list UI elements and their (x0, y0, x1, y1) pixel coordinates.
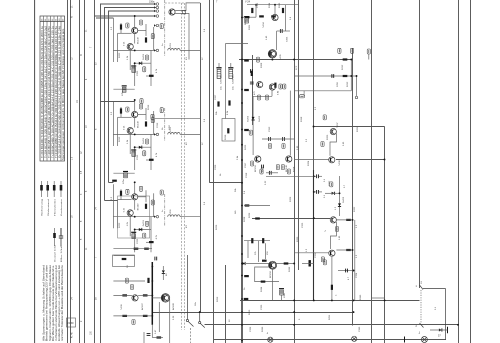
dark resistor on y218 wire (255, 217, 260, 219)
cap C305 (280, 29, 282, 33)
label box (323, 260, 326, 265)
label box (132, 320, 135, 325)
wire tr210 base (152, 297, 161, 299)
vertical x252 upper (252, 55, 254, 125)
svg-text:C216: C216 (157, 122, 159, 128)
svg-text:R330: R330 (297, 236, 299, 242)
vertical x352.5 (352, 48, 354, 326)
wire q2 out (336, 249, 352, 251)
svg-text:C207: C207 (215, 94, 217, 100)
wire y182.7 (210, 182, 243, 184)
vertical x371.6 (371, 0, 373, 343)
transistor Q208 (330, 129, 336, 135)
svg-text:Gr202: Gr202 (258, 115, 261, 122)
input wire 3 (108, 10, 156, 12)
input wire 2 (104, 7, 156, 9)
bus wire E (94, 0, 96, 343)
svg-text:C313: C313 (269, 126, 271, 132)
labels strip4 (120, 265, 175, 334)
resistor R208 (217, 101, 219, 106)
S-wire (331, 222, 337, 249)
dark resistor (346, 219, 351, 221)
svg-text:Drossel 1/4w: Drossel 1/4w (54, 244, 57, 262)
junctions (339, 192, 341, 194)
svg-text:C310: C310 (304, 90, 306, 96)
long vertical x209.5 (209, 0, 211, 183)
svg-text:R244: R244 (261, 286, 263, 292)
svg-text:R249: R249 (262, 326, 264, 332)
supply bus x242 (241, 0, 243, 343)
svg-text:Tr204: Tr204 (262, 22, 265, 28)
legend: symbol 3 (53, 181, 56, 197)
wire y159.2 (336, 159, 385, 161)
svg-text:R321: R321 (357, 126, 359, 132)
bus wire F (100, 4, 102, 343)
wire Q209 base (295, 159, 329, 161)
stem 3 (368, 54, 370, 60)
cap C213 (332, 74, 334, 78)
legend: symbol 4 (60, 181, 63, 197)
junction dots (313, 175, 315, 177)
label below capB (282, 144, 285, 149)
vertical wire G (104, 8, 106, 201)
diode horizontal (332, 192, 335, 195)
dash-dot screen 2 (164, 108, 166, 141)
label box (249, 130, 252, 135)
wire y172.8 (266, 172, 278, 174)
transistor Tr210 (162, 295, 168, 301)
ecap labels (221, 74, 235, 84)
wire y76 (294, 75, 356, 77)
svg-text:R304: R304 (269, 2, 271, 8)
switch contact S1 (186, 255, 193, 343)
wire ecap stem (281, 295, 283, 300)
connector box on Q201 wire (183, 10, 186, 14)
psu diode (439, 328, 442, 331)
svg-text:C340: C340 (359, 326, 361, 332)
wire H corner (109, 182, 114, 184)
svg-text:R332: R332 (354, 206, 356, 212)
svg-text:Tr209: Tr209 (120, 304, 123, 310)
dash-dot screen 3 (164, 194, 166, 226)
label box (300, 95, 305, 98)
svg-text:R223: R223 (119, 222, 121, 228)
label box (321, 257, 324, 262)
svg-text:Tr 201 BC149C Tr 202 BC149C: Tr 201 BC149C Tr 202 BC149C Tr 203 BC149… (41, 25, 44, 158)
label box pair (125, 278, 128, 283)
label box below (335, 227, 338, 232)
svg-text:C225: C225 (137, 238, 139, 244)
transistor Q207 (269, 84, 275, 90)
junction (271, 59, 273, 61)
trimmer box (222, 119, 235, 142)
svg-text:2200: 2200 (337, 81, 339, 87)
diode dark (252, 117, 255, 120)
transistor Q output (270, 262, 276, 268)
svg-text:100u: 100u (284, 292, 286, 298)
wire y139 (262, 138, 294, 140)
label box (265, 95, 268, 100)
ecap dark (244, 17, 249, 23)
svg-text:R229: R229 (216, 224, 218, 230)
diode vertical (338, 203, 341, 206)
vertical stubs (247, 241, 249, 258)
switch contact S2 (199, 312, 205, 328)
vertical x224.3 (225, 43, 227, 118)
lamp symbol 2 (352, 336, 357, 341)
wire y206 with R (244, 205, 270, 207)
svg-text:R203: R203 (119, 52, 121, 58)
label box C312 (323, 115, 326, 120)
table header rule (40, 21, 65, 23)
ecap C208 (228, 68, 233, 79)
input wire 4 (94, 15, 156, 17)
labels (261, 271, 286, 334)
svg-text:Tr 208 BC148B Tr 209 AC187K: Tr 208 BC148B Tr 209 AC187K Gr 208 BA114… (51, 25, 54, 158)
connector contact 5 (154, 24, 159, 27)
junctions (350, 59, 352, 61)
notes paragraph rotated (43, 264, 65, 341)
cap stems (314, 175, 316, 177)
diode on bus (242, 262, 245, 265)
svg-text:Tr: Tr (323, 258, 326, 260)
svg-text:R216: R216 (148, 104, 150, 110)
screen dashed pair left (180, 3, 182, 330)
Q201 collector wire (175, 3, 200, 11)
svg-text:C209: C209 (215, 164, 217, 170)
wire y281 (113, 280, 145, 282)
rail top cap (155, 257, 157, 261)
svg-text:R256: R256 (217, 296, 219, 302)
cap right B (317, 190, 319, 194)
resistor hatched low (251, 71, 253, 76)
vertical x356 (356, 76, 358, 96)
label box (287, 169, 290, 174)
vertical x470 (470, 0, 472, 343)
svg-text:Spannungen gemessen mit Roehre: Spannungen gemessen mit Roehrenvoltm. 10… (62, 28, 65, 160)
wire x285 (285, 5, 287, 31)
label box y116 (151, 114, 154, 119)
dark R row2 left (122, 315, 127, 317)
table column line 3 (50, 16, 52, 161)
legend: fuse symbol 1 (40, 181, 43, 197)
wire q right (277, 263, 295, 265)
input wire 5 (96, 17, 113, 19)
junctions (331, 299, 333, 301)
labels (342, 196, 358, 258)
wire Q204 (274, 5, 276, 15)
svg-text:C329: C329 (315, 252, 317, 258)
label box on wire 3 (367, 49, 370, 54)
svg-text:R326: R326 (290, 196, 292, 202)
screen dashed top (165, 2, 185, 4)
svg-text:R238: R238 (244, 216, 246, 222)
wire Q204b stem (271, 91, 273, 97)
junction dot (255, 4, 257, 6)
dark R (262, 238, 264, 243)
wire y96 (253, 95, 272, 97)
connector contact 3 (154, 10, 159, 13)
parts table frame (40, 16, 65, 161)
svg-text:C334: C334 (356, 272, 358, 278)
table column line 6 (60, 16, 62, 161)
svg-text:R318: R318 (301, 116, 303, 122)
open circle (355, 96, 358, 99)
labels (337, 64, 349, 87)
svg-text:C336: C336 (250, 326, 252, 332)
vertical x256 (255, 5, 257, 18)
svg-text:R324: R324 (308, 160, 310, 166)
vertical x384.6 (384, 126, 386, 343)
dark resistor above (262, 260, 267, 262)
svg-text:R301: R301 (249, 24, 251, 30)
cap right A (317, 174, 319, 178)
label box (260, 169, 263, 174)
resistor R209 (228, 100, 230, 105)
dark R vertical (331, 285, 333, 290)
svg-text:Tr 206 BC158 Tr 207 BC148 Gr: Tr 206 BC158 Tr 207 BC148 Gr 206 BZY88 C… (48, 25, 51, 158)
svg-text:R251: R251 (329, 314, 331, 320)
transistor Q206 (257, 82, 263, 88)
svg-text:AC187: AC187 (141, 303, 144, 310)
svg-text:C208 10u: C208 10u (232, 74, 234, 84)
labels (336, 276, 351, 296)
transistor Q204 (272, 14, 278, 20)
vertical x159.3 (158, 302, 160, 332)
transistor Q207b (286, 156, 292, 162)
vertical x351 (350, 60, 352, 91)
page left border (34, 0, 36, 343)
dark R244 (261, 281, 266, 283)
table column line 5 (57, 16, 59, 161)
svg-text:R250: R250 (249, 309, 251, 315)
small resistors right of bus (244, 59, 249, 61)
label box (251, 161, 254, 166)
Q208 wires (330, 133, 336, 155)
wire y118.3 ext (155, 117, 200, 119)
wire x276 (276, 31, 278, 50)
diode vertical (162, 270, 165, 273)
dark comp in box (122, 258, 127, 260)
junction (199, 311, 201, 313)
labels under Qs (247, 115, 296, 172)
svg-text:C317: C317 (245, 162, 247, 168)
connector contact 4 (154, 15, 159, 18)
svg-text:Tr208: Tr208 (338, 160, 341, 166)
legend labels 2 (54, 244, 64, 262)
resistor on y17.2 (245, 16, 250, 18)
svg-text:Gr203: Gr203 (247, 115, 250, 122)
cap labels (324, 178, 326, 198)
transistor Q201 (169, 9, 175, 15)
dark resistor right (284, 262, 289, 264)
junction (457, 324, 459, 326)
ecap dark strip2 (122, 86, 127, 92)
scattered value labels (119, 28, 361, 332)
resistor (282, 8, 284, 13)
wire top y4.7 (247, 4, 299, 6)
cap on wire y71 (251, 69, 253, 73)
svg-text:BC158: BC158 (255, 165, 257, 172)
ground wires (143, 332, 145, 343)
transistor Q driver2 (329, 250, 335, 256)
wire G corner (105, 200, 118, 202)
wire y126.8 (314, 126, 385, 128)
feedback wire (255, 267, 279, 282)
bus junction dots (241, 17, 243, 19)
mid col labels (216, 86, 239, 176)
ecap wire 1 (218, 63, 220, 68)
wire x290 (289, 91, 291, 156)
wire y90.8 (294, 90, 351, 92)
wire y298 (372, 297, 385, 299)
wire base2 (294, 252, 329, 254)
svg-text:R308: R308 (261, 62, 263, 68)
resistor dark (259, 15, 264, 17)
wire y339.7 (214, 339, 446, 341)
svg-text:normaler Toleranz der Bauteile: normaler Toleranz der Bauteile und der B… (61, 264, 64, 341)
wire y31 (277, 30, 290, 32)
svg-text:Tr205: Tr205 (279, 54, 282, 60)
lamp symbol bottom (268, 337, 273, 342)
junctions (293, 263, 295, 265)
wire x253 (252, 96, 254, 155)
cap on wire (346, 269, 348, 273)
svg-text:R236: R236 (249, 212, 251, 218)
channel strip 1 (113, 15, 200, 89)
screen dashed pair right (184, 3, 186, 330)
box top-left (113, 255, 135, 267)
cap bar dark (309, 260, 311, 266)
svg-text:BC158: BC158 (270, 271, 272, 278)
wire y324.5 (205, 324, 459, 326)
wire y100 (100, 101, 135, 103)
transistor Q205 power (269, 51, 275, 57)
junction (313, 126, 315, 128)
vertical x458 (458, 0, 460, 343)
svg-text:O: O (81, 54, 83, 56)
svg-text:R302: R302 (245, 19, 247, 25)
vertical x294 (294, 0, 296, 343)
svg-text:125u: 125u (122, 90, 124, 96)
cap (262, 165, 264, 169)
label box pair top (276, 165, 279, 170)
channel strip 2 (113, 99, 200, 173)
cap pair B (283, 137, 285, 141)
R stem dark (147, 278, 149, 283)
psu cap bar (447, 327, 449, 333)
wire y59.5 (239, 59, 352, 61)
svg-text:125u: 125u (123, 178, 125, 184)
svg-text:BC148: BC148 (286, 165, 288, 172)
resistor striped (274, 83, 276, 88)
svg-text:R213: R213 (119, 136, 121, 142)
svg-text:C330: C330 (261, 304, 263, 310)
extra labels scattered (111, 2, 362, 315)
strip3 tail resistors (134, 248, 139, 250)
svg-text:R305: R305 (279, 2, 281, 8)
vertical x225.3 (225, 265, 227, 343)
ecap wire 2 (230, 63, 232, 68)
junction rail dots (151, 266, 153, 268)
input wire 1 (100, 3, 156, 5)
strip3 tail wire (113, 248, 152, 250)
svg-text:C322: C322 (329, 180, 331, 186)
label below capA (268, 144, 271, 149)
wire tr210 emitter (169, 300, 171, 343)
resistor hatched (251, 8, 253, 13)
svg-text:L202: L202 (169, 124, 171, 130)
svg-text:R340: R340 (360, 294, 362, 300)
svg-text:Kondensator: Kondensator (60, 199, 63, 216)
legend labels (41, 198, 64, 216)
labels psu (419, 281, 437, 334)
svg-text:Elko 10uF: Elko 10uF (61, 244, 63, 262)
svg-text:C207 10u: C207 10u (221, 74, 223, 84)
wire y316 (113, 315, 152, 317)
dark R row2 mid (143, 315, 148, 317)
svg-text:Heissleiter: Heissleiter (53, 199, 56, 216)
cap bars (250, 82, 254, 84)
label box on wire (338, 48, 341, 53)
svg-text:R320: R320 (327, 134, 329, 140)
vertical x339.5 (339, 176, 341, 216)
svg-text:C325: C325 (302, 222, 304, 228)
vertical wire H (108, 11, 110, 183)
bus wire D (84, 0, 86, 343)
dark R right (143, 294, 148, 296)
wire q emitter down (272, 269, 274, 300)
wire y218 (252, 218, 330, 220)
legend: symbol 2 (46, 181, 49, 197)
bus wire B (70, 0, 72, 343)
wire q-rail (138, 294, 152, 296)
svg-text:156a: 156a (149, 1, 155, 4)
svg-text:C205: C205 (137, 70, 139, 76)
labels (336, 122, 341, 166)
label R216 (140, 99, 143, 104)
wire q out (336, 219, 352, 221)
svg-text:Tr 210 AC188K Gr 201 BA114 G: Tr 210 AC188K Gr 201 BA114 Gr 202 BA114 … (55, 25, 58, 158)
wire y240.7 (244, 240, 270, 242)
cap pair A (269, 137, 271, 141)
bus wire C (79, 0, 81, 343)
psu wire y330 (430, 329, 448, 331)
dark resistor R213 (343, 75, 348, 77)
label box top (330, 182, 333, 187)
svg-text:R219: R219 (225, 134, 227, 140)
ground cluster: cap (147, 334, 151, 336)
long vertical x213 (213, 0, 215, 343)
svg-text:Gr: Gr (243, 287, 246, 290)
wire stem x313 top (313, 92, 315, 127)
ecap dark strip3 (123, 172, 128, 178)
table column line 4 (53, 16, 55, 161)
screen dash-dot line (164, 0, 166, 57)
svg-text:R212: R212 (342, 64, 344, 70)
vertical x354.8 (354, 220, 356, 301)
label box pair (279, 84, 282, 89)
table rotated text (41, 25, 65, 160)
label box R322 (321, 142, 324, 147)
wire y193 (325, 192, 340, 194)
table column line 1 (43, 16, 45, 161)
trimmer resistor (227, 128, 229, 133)
transistor Q206b (255, 156, 261, 162)
label box on wire 2 (351, 48, 354, 53)
vertical x313.8 (313, 0, 315, 170)
svg-text:Tr 204 BC149B Tr 205 BC149B: Tr 204 BC149B Tr 205 BC149B Tr 206 BC158… (44, 25, 47, 158)
